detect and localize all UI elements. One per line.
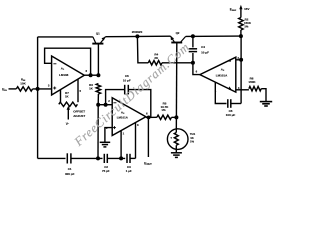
wire: A3 - input stub bbox=[236, 59, 241, 61]
capacitor C3 1uF bbox=[126, 154, 128, 163]
node: EREF rail junction dot bbox=[239, 34, 243, 38]
transistor Q1 (half of 2N2920) bbox=[92, 43, 103, 45]
resistor R4 2K bbox=[148, 61, 162, 65]
svg-text:2N2920: 2N2920 bbox=[132, 30, 143, 34]
svg-text:ADJUST: ADJUST bbox=[73, 114, 85, 118]
wire bbox=[107, 157, 125, 159]
svg-text:10 μF: 10 μF bbox=[201, 50, 209, 54]
wire: Q1 base vertical bbox=[97, 45, 99, 76]
svg-text:Q1: Q1 bbox=[96, 31, 100, 35]
wire: A3 output loop up to R4/C4 node bbox=[193, 63, 200, 75]
svg-text:C6: C6 bbox=[125, 74, 129, 78]
svg-text:1 μF: 1 μF bbox=[126, 169, 132, 173]
capacitor C5 100uF bbox=[227, 99, 229, 108]
svg-text:LM108: LM108 bbox=[59, 73, 69, 77]
svg-text:1%: 1% bbox=[161, 108, 166, 112]
svg-text:C1: C1 bbox=[68, 167, 72, 171]
potentiometer R7 wiper arrow bbox=[67, 106, 70, 110]
wire: to A2 - input bbox=[98, 104, 112, 106]
wire bbox=[71, 157, 103, 159]
svg-text:LM101A: LM101A bbox=[117, 115, 129, 119]
wire: outer feedback left vertical (node X up to top rail) bbox=[37, 37, 39, 89]
op-amp A1 LM108 bbox=[52, 56, 85, 95]
capacitor C4 10uF bbox=[192, 36, 194, 47]
node: bottom rail dot (pin1 riser) bbox=[119, 156, 123, 160]
resistor R2 150K 1% bbox=[239, 18, 243, 31]
node: A1 output junction dot (inner loop) bbox=[89, 73, 93, 77]
wire: A3 + input to R6 bbox=[236, 89, 249, 91]
capacitor C1 300pF bbox=[66, 153, 68, 163]
svg-text:OFFSET: OFFSET bbox=[73, 110, 85, 114]
op-amp A1 minus input sign bbox=[53, 63, 56, 65]
wire: A1 inner feedback loop (output to - input) bbox=[45, 48, 91, 75]
svg-text:LM101A: LM101A bbox=[216, 74, 228, 78]
ground (R6) bbox=[260, 101, 272, 103]
node: A1 output junction dot (Q1 base / R3) bbox=[96, 73, 100, 77]
wire: A2 pin 1 riser bbox=[120, 131, 122, 159]
wire: A2 pin 8 riser bbox=[135, 123, 137, 158]
svg-text:150K: 150K bbox=[248, 80, 256, 84]
resistor RIN 10K bbox=[16, 87, 32, 91]
capacitor C2 75pF bbox=[103, 154, 105, 163]
op-amp A2 minus sign bbox=[113, 102, 116, 104]
wire: EOUT stub down bbox=[147, 117, 149, 157]
svg-text:Q2: Q2 bbox=[176, 31, 180, 35]
thermistor TH1 circle bbox=[167, 129, 188, 150]
transistor Q2 (half of 2N2920) bbox=[171, 42, 182, 44]
node: A3 - input junction dot bbox=[239, 58, 243, 62]
svg-text:75 pF: 75 pF bbox=[102, 169, 110, 173]
wire: A2 + input to ground bbox=[105, 128, 112, 142]
capacitor C6 10pF (A2 feedback) bbox=[106, 90, 125, 105]
op-amp A1 plus input sign bbox=[53, 87, 56, 89]
node X junction dot (EIN / A1 + input) bbox=[36, 87, 40, 91]
wire: A2 output to R5 bbox=[146, 116, 157, 118]
wire: outer feedback top horizontal to Q1 collector bbox=[38, 36, 93, 38]
op-amp A3 LM101A (points left) bbox=[200, 57, 236, 92]
resistor R5 10.7K 1% bbox=[157, 115, 172, 119]
wire: common emitter top rail Q1 to Q2 bbox=[105, 35, 170, 38]
ground (thermistor) bbox=[171, 152, 182, 154]
resistor R3 1K (A1 output load) bbox=[96, 84, 100, 95]
op-amp A2 plus sign bbox=[113, 127, 116, 129]
resistor R6 150K bbox=[249, 87, 261, 91]
svg-text:100 μF: 100 μF bbox=[226, 113, 236, 117]
node: top rail junction dot (R4 riser) bbox=[135, 34, 139, 38]
node: A2 output junction dot bbox=[147, 116, 151, 120]
op-amp A2 LM101A bbox=[112, 98, 146, 136]
svg-text:1%: 1% bbox=[244, 24, 249, 28]
node EREF 15V supply arrow bbox=[240, 9, 242, 18]
op-amp A3 plus sign bbox=[228, 87, 231, 89]
wire: node X down to bottom rail bbox=[37, 89, 39, 158]
svg-text:10K: 10K bbox=[20, 82, 26, 86]
wire: Q2 collector rail to right bbox=[186, 35, 241, 37]
wire: R3 node down to bottom rail bbox=[97, 105, 99, 159]
transistor Q2 emitter arrow bbox=[171, 36, 175, 40]
wire: reference vertical down to A3 - input and C5 bbox=[240, 36, 242, 103]
wire: EIN input lead bbox=[9, 88, 17, 90]
wire: Q2 base vertical down to R5/thermistor node bbox=[175, 43, 177, 117]
node: junction dot R4 / C4 / A3 output bbox=[191, 61, 195, 65]
svg-text:1%: 1% bbox=[190, 140, 195, 144]
wire: Q2 base node to R5 right / thermistor bbox=[174, 115, 178, 119]
node: bottom rail dot (R3 riser) bbox=[96, 156, 100, 160]
wire: A1 output to junction dots bbox=[84, 74, 98, 76]
transistor Q1 emitter arrow bbox=[102, 37, 106, 41]
wire: bottom compensation rail bbox=[38, 157, 66, 159]
potentiometer R7 1K offset adjust bbox=[60, 90, 62, 102]
node: R3 bottom junction dot bbox=[96, 103, 100, 107]
node: C6 riser junction dot bbox=[104, 103, 108, 107]
wire: RIN to node X bbox=[33, 88, 52, 90]
wire: R2 bottom to rail bbox=[240, 30, 242, 36]
svg-text:C4: C4 bbox=[201, 45, 205, 49]
svg-text:15V: 15V bbox=[244, 7, 249, 11]
wire: R4 to A3 output node bbox=[162, 62, 193, 64]
wire: A3 pin1 riser to C5 bbox=[215, 82, 226, 103]
svg-text:10 pF: 10 pF bbox=[123, 79, 131, 83]
svg-text:300 pF: 300 pF bbox=[65, 172, 75, 176]
ground (A2 + input) bbox=[100, 141, 111, 143]
op-amp A3 minus sign bbox=[228, 60, 231, 62]
node: rail dot at C4 stub bbox=[191, 34, 195, 38]
svg-text:EOUT: EOUT bbox=[144, 162, 152, 167]
wire: R4 riser from top rail bbox=[137, 36, 148, 62]
wire: R6 to ground bbox=[261, 89, 266, 102]
wire: rail end up to pin 8 riser bbox=[130, 157, 136, 159]
